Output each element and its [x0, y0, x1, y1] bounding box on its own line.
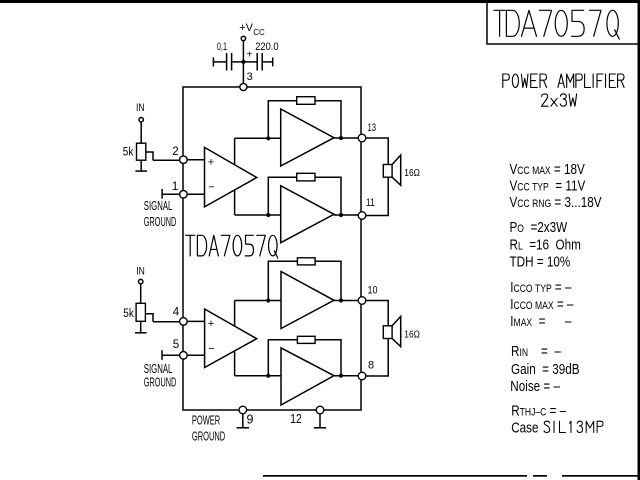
svg-text:+: +: [208, 156, 214, 168]
svg-text:−: −: [208, 181, 214, 193]
svg-text:RIN = –: RIN = –: [511, 343, 561, 360]
svg-text:Gain = 39dB: Gain = 39dB: [511, 361, 580, 378]
svg-text:+: +: [247, 50, 253, 61]
svg-text:GROUND: GROUND: [144, 377, 176, 390]
svg-text:8: 8: [368, 360, 374, 372]
svg-text:4: 4: [173, 306, 180, 318]
svg-text:+V: +V: [239, 22, 253, 34]
svg-text:5k: 5k: [123, 146, 134, 159]
svg-text:SIGNAL: SIGNAL: [144, 200, 173, 213]
svg-text:220.0: 220.0: [255, 41, 279, 53]
svg-text:12: 12: [290, 413, 301, 426]
svg-text:CC: CC: [253, 28, 265, 37]
svg-text:9: 9: [247, 413, 254, 427]
svg-text:TDH = 10%: TDH = 10%: [510, 253, 571, 270]
svg-text:0,1: 0,1: [217, 40, 227, 52]
svg-text:2: 2: [172, 146, 178, 158]
svg-text:5k: 5k: [123, 307, 134, 320]
svg-text:13: 13: [368, 122, 377, 135]
svg-text:Case: Case: [511, 419, 538, 436]
svg-text:SIGNAL: SIGNAL: [144, 363, 173, 376]
svg-text:GROUND: GROUND: [144, 216, 176, 229]
svg-text:11: 11: [366, 197, 375, 209]
svg-text:GROUND: GROUND: [192, 431, 225, 444]
svg-text:IN: IN: [136, 102, 145, 114]
svg-text:−: −: [208, 343, 214, 355]
svg-text:1: 1: [172, 181, 178, 193]
svg-text:3: 3: [247, 71, 253, 83]
svg-text:16Ω: 16Ω: [404, 328, 420, 340]
svg-text:POWER: POWER: [192, 415, 220, 428]
svg-text:10: 10: [368, 285, 378, 297]
svg-text:+: +: [208, 318, 214, 330]
svg-text:IN: IN: [136, 265, 145, 277]
svg-text:5: 5: [173, 339, 179, 351]
svg-text:16Ω: 16Ω: [404, 167, 420, 179]
svg-text:Noise = –: Noise = –: [510, 378, 560, 395]
